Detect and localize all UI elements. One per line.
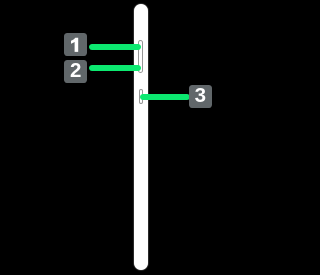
arrow 1 (volume up callout line) xyxy=(89,44,141,50)
callout label 2 xyxy=(64,60,87,83)
volume rocker button xyxy=(138,40,143,73)
power button xyxy=(139,89,143,104)
device body (white vertical bar) xyxy=(134,4,149,270)
callout label 1 xyxy=(64,33,87,56)
arrow 2 (volume down callout line) xyxy=(89,65,142,71)
arrow 3 (power button callout line) xyxy=(140,94,190,100)
callout label 3 xyxy=(189,85,212,108)
digit 1 glyph xyxy=(64,33,87,56)
